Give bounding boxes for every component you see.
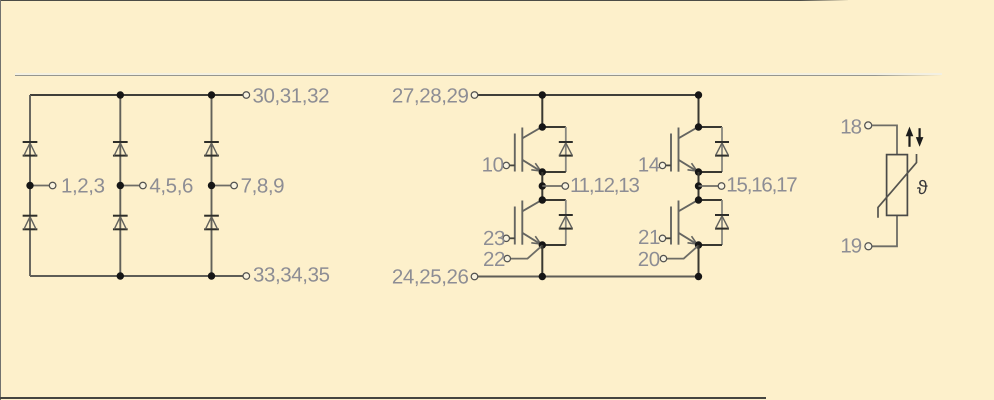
svg-text:24,25,26: 24,25,26 [392,265,469,288]
svg-text:7,8,9: 7,8,9 [241,174,285,197]
svg-text:15,16,17: 15,16,17 [726,174,797,197]
svg-text:30,31,32: 30,31,32 [253,84,330,107]
svg-text:1,2,3: 1,2,3 [61,174,105,197]
svg-text:19: 19 [840,235,861,258]
svg-text:4,5,6: 4,5,6 [149,174,193,197]
svg-text:33,34,35: 33,34,35 [253,264,330,287]
svg-text:10: 10 [482,153,504,176]
svg-text:20: 20 [638,248,660,271]
svg-text:22: 22 [483,248,505,271]
svg-text:18: 18 [840,116,861,139]
svg-text:27,28,29: 27,28,29 [392,84,469,107]
svg-text:ϑ: ϑ [917,177,928,199]
svg-text:23: 23 [483,227,505,250]
svg-text:11,12,13: 11,12,13 [570,174,639,197]
svg-text:14: 14 [638,153,660,176]
svg-text:21: 21 [638,226,660,249]
